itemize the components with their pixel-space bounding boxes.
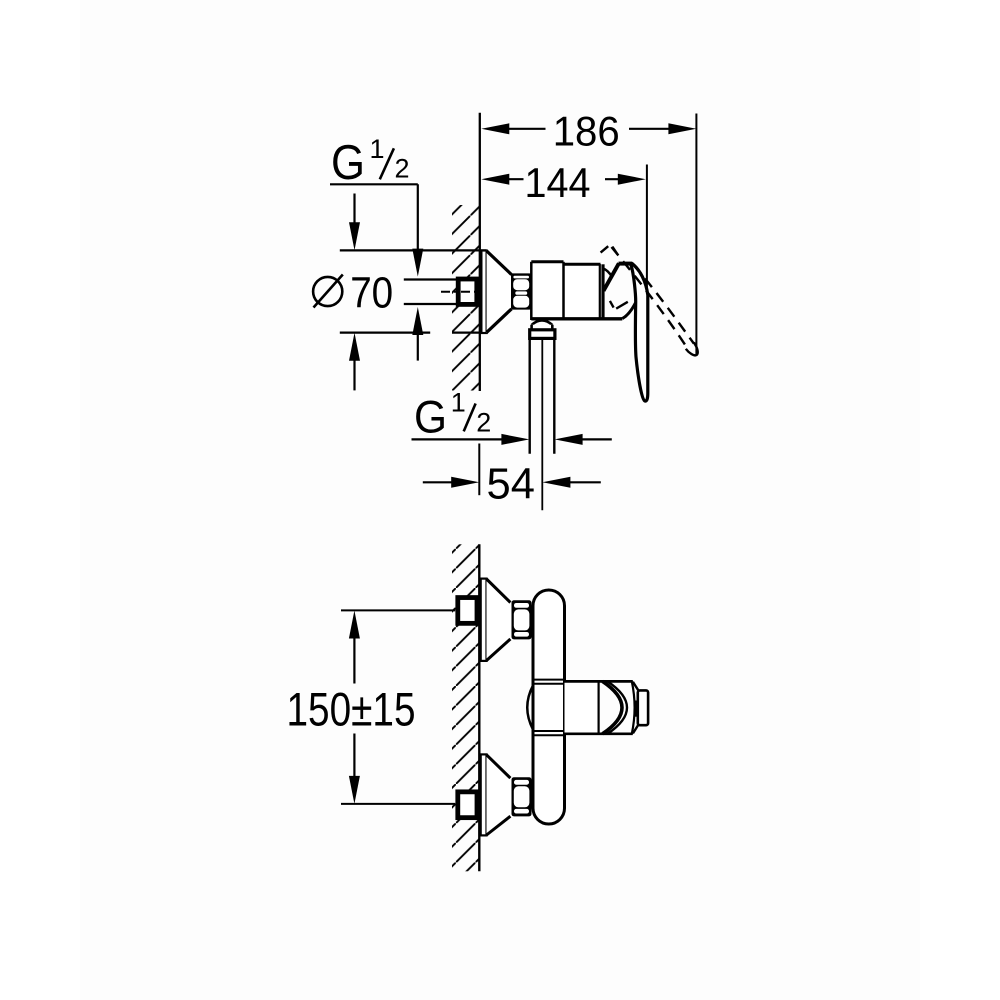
capsule section line top b [533,683,565,685]
mixer body top edge rear [531,260,563,263]
svg-text:G: G [331,136,365,190]
handle joint line b [601,264,604,318]
handle dome right edge arc [632,681,635,733]
dia 70 up arrow shaft [353,356,355,390]
lower union nut facet strip top [514,780,529,785]
G 1/2 bottom left arrow [555,434,583,445]
dimension 186 right arrow [668,123,696,134]
dimension 150 shaft upper [353,634,355,684]
upper union nut facet middle [514,609,530,630]
186 right extension line [695,114,697,355]
hose pipe centerline / 54 extension [541,338,543,510]
dimension 186 shaft left [505,128,546,130]
lower escutcheon cone top edge [487,755,511,778]
svg-text:1: 1 [370,134,385,164]
mixer body step line [562,262,565,320]
handle cap top edge [619,262,633,266]
cartridge housing top edge [565,680,633,683]
lower wall fitting square (lower view) [458,792,477,818]
handle joint line a [599,264,601,319]
dimension 186 line left arrow [481,123,509,134]
lower escutcheon cone fill [487,754,511,835]
dimension 186 shaft right [629,128,673,130]
lower union nut facet middle [514,786,530,807]
lever end cap connector top [633,682,638,690]
G 1/2 top leader underline [330,183,418,185]
dia 70 lower extent line a [340,332,430,334]
dashed lever elbow dash b [616,302,628,309]
label G 1/2 bottom - fraction slash [464,404,476,432]
outlet nut collar [530,330,555,339]
handle cap diagonal [604,263,619,291]
dimension 144 shaft right [605,178,622,180]
svg-text:144: 144 [525,159,591,206]
G 1/2 top up arrow [412,307,423,335]
G 1/2 bottom leader shaft [412,438,506,440]
svg-text:1: 1 [451,388,466,418]
wall fitting square (side view) [458,279,477,304]
lower union nut facet strip bottom [514,809,529,814]
svg-text:70: 70 [350,269,393,318]
dia 70 up arrow [349,333,360,361]
escutcheon cone fill [487,251,512,334]
capsule section line bottom b [533,734,565,736]
54 left extension line [478,444,480,496]
outlet dome arc [532,320,553,325]
upper union nut facet strip top [514,603,529,608]
cartridge housing fill [565,681,599,733]
svg-text:G: G [414,392,447,443]
dimension 150 up arrow [349,611,360,639]
dia 70 down arrow [349,222,360,250]
mixer body capsule (lower view) [533,590,565,824]
dashed lever elbow dash a [610,301,614,308]
outlet collar upper [532,325,553,330]
dimension 144 shaft left [505,178,524,180]
capsule section line top a [533,679,565,681]
upper escutcheon base plate [481,579,487,661]
G 1/2 top up arrow shaft [417,331,419,361]
hose pipe right line [553,338,555,453]
mixer body top edge front [564,263,601,266]
lower escutcheon base plate [481,754,487,835]
supply pipe lower line [404,303,456,305]
svg-text:186: 186 [553,107,620,154]
dimension 54 shaft left [423,481,456,483]
mixer body left edge [530,262,533,320]
svg-text:150±15: 150±15 [287,682,416,735]
svg-text:2: 2 [395,154,410,184]
union nut facet strip top [513,276,529,279]
mixer body fill [531,262,603,320]
cartridge dome arc [603,268,613,277]
lever end cap seam tick [634,701,637,717]
upper escutcheon cone fill [487,579,511,661]
mixer body bottom edge [531,317,622,320]
union nut facet strip middle [515,291,527,294]
G 1/2 bottom right arrow [501,434,529,445]
lever end cap connector bottom [633,725,638,733]
fitting centerline dashes [441,291,475,293]
wall hatching (side view) [452,205,480,391]
wall face line / 186 left extension line [479,113,481,391]
dashed lever tip hook [686,343,698,356]
escutcheon cone top edge [487,251,512,275]
upper union nut body [512,600,532,639]
label dia 70 - slash [314,275,343,308]
lever crescent outer arc [608,681,628,733]
dimension 54 shaft right [566,481,601,483]
150 lower extension line [341,803,455,805]
wall hatching (front/side lower view) [452,544,479,871]
dimension 144 line left arrow [481,174,509,185]
dia 70 down arrow shaft [353,194,355,228]
150 upper extension line [341,609,455,611]
capsule left bulge arc [527,686,533,730]
lower union nut body [512,777,532,816]
upper escutcheon cone top edge [487,579,511,603]
upper union nut facet strip bottom [514,632,529,637]
lower escutcheon cone bottom edge [487,816,511,835]
supply pipe upper line [404,278,456,280]
dimension 54 right arrow (points right) [451,477,479,488]
dimension 54 left arrow (points left) [542,477,570,488]
label G 1/2 top - fraction slash [380,148,394,179]
dashed lever cap peak right [612,247,617,255]
svg-text:2: 2 [476,408,491,438]
cartridge housing bottom edge [565,732,633,735]
hose pipe left line [529,338,531,453]
lever blade (closed position) [631,264,648,401]
dimension 150 down arrow [349,776,360,804]
dimension 144 right arrow [618,174,646,185]
144 right extension line [646,165,648,309]
escutcheon base plate (side view) [481,251,486,334]
G 1/2 top leader down arrow [412,249,423,277]
label dia 70 - circle [313,277,342,306]
wall face line lower view [478,544,480,871]
dashed lever upper edge (open position) [633,265,694,344]
svg-text:54: 54 [487,460,535,508]
G 1/2 top leader vertical [417,184,419,253]
upper escutcheon cone bottom edge [487,639,511,661]
union nut (side view) body [511,273,531,309]
dashed lever lower edge (open position) [612,247,689,350]
cartridge housing right edge [597,681,599,733]
G 1/2 bottom left arrow shaft [578,438,612,440]
upper wall fitting square (lower view) [458,598,477,624]
union nut facet barrel lower [513,296,529,308]
union nut facet barrel upper [513,279,529,290]
dia 70 lower extent line b [452,332,487,334]
dia 70 upper extent line [340,249,487,251]
dashed lever cap peak left [601,246,609,252]
dimension 150 shaft lower [353,734,355,781]
body-to-lever elbow arc [622,303,635,319]
capsule section line bottom a [533,730,565,732]
escutcheon cone bottom edge [487,309,512,333]
lever crescent inner arc [603,681,623,733]
lever end cap [638,690,648,725]
